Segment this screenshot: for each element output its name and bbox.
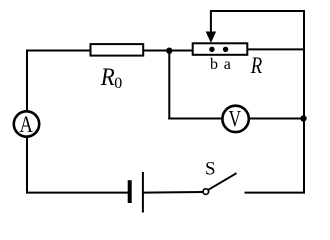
svg-text:a: a (224, 56, 231, 73)
svg-text:b: b (210, 56, 218, 73)
battery positive plate (long thin) (142, 172, 144, 213)
wire: left vertical rail (top corner down to ammeter) (27, 51, 30, 113)
svg-text:V: V (229, 106, 241, 132)
switch S pivot (203, 189, 209, 195)
wire: right vertical rail (303, 11, 305, 193)
rheostat R body (193, 43, 248, 55)
wire: segment between R0 and junction/rheostat (142, 50, 194, 52)
rheostat contact dot b (209, 47, 214, 52)
wire: battery to switch pivot (144, 191, 204, 194)
wire: top horizontal wire to slider (210, 10, 305, 12)
node: junction of main wire and voltmeter branch (166, 48, 172, 54)
voltmeter V (222, 106, 248, 132)
svg-text:R: R (100, 62, 115, 91)
svg-text:A: A (20, 112, 33, 138)
rheostat contact dot a (223, 47, 228, 52)
resistor R0 (91, 44, 144, 56)
svg-text:0: 0 (114, 75, 122, 92)
slider arrowhead (206, 32, 216, 44)
ammeter A (14, 111, 39, 136)
battery negative plate (short thick) (128, 180, 132, 203)
wire: top-left horizontal segment (node from ammeter branch to R0) (26, 50, 92, 52)
svg-text:R: R (250, 53, 262, 78)
wire: left vertical rail (ammeter down to bottom corner) (26, 136, 28, 194)
switch S lever (208, 173, 236, 190)
wire: voltmeter branch horizontal right (248, 118, 304, 120)
wire: voltmeter branch vertical from junction (168, 50, 170, 120)
node: junction of voltmeter branch with right rail (300, 115, 306, 121)
wire: bottom-right horizontal segment (245, 192, 306, 194)
wire: voltmeter branch horizontal left (168, 118, 224, 120)
svg-text:S: S (205, 159, 216, 180)
slider arrow stem (210, 10, 212, 34)
wire: bottom-left horizontal segment to battery (26, 192, 129, 194)
wire: segment from rheostat right terminal to right rail (246, 48, 305, 50)
